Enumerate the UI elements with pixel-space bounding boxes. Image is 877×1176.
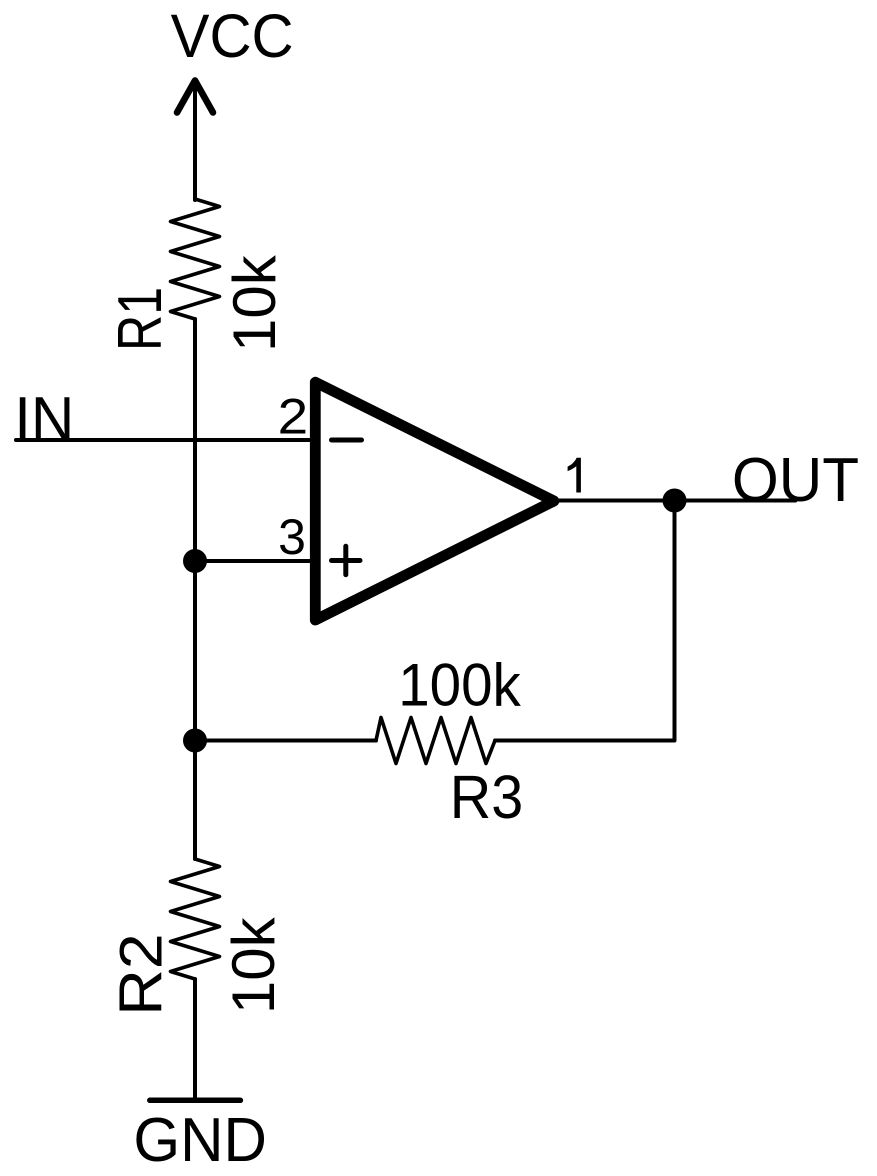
svg-text:GND: GND: [133, 1106, 267, 1175]
svg-text:3: 3: [278, 509, 306, 565]
svg-text:R3: R3: [450, 763, 524, 832]
svg-text:OUT: OUT: [732, 446, 859, 515]
op-amp non-inverting input plus sign: [332, 546, 361, 574]
svg-text:IN: IN: [14, 384, 74, 454]
wire R2 bottom to ground: [193, 979, 197, 1100]
pin number 1: [568, 458, 581, 493]
ground bar: [150, 1098, 241, 1104]
resistor R2: [171, 859, 220, 979]
wire feedback node to R3: [195, 739, 376, 743]
op-amp inverting input minus sign: [332, 438, 362, 443]
svg-text:10k: 10k: [221, 254, 288, 352]
resistor R1: [171, 199, 220, 319]
op-amp U1 triangle body: [315, 382, 554, 620]
svg-text:10k: 10k: [220, 916, 287, 1014]
wire output node down to feedback: [495, 501, 675, 741]
wire pin3 node to op-amp pin 3: [195, 559, 310, 563]
svg-text:VCC: VCC: [171, 2, 294, 71]
svg-text:2: 2: [278, 388, 309, 444]
resistor R3: [376, 718, 495, 764]
wire op-amp output to OUT: [553, 499, 795, 503]
wire IN to op-amp pin 2: [16, 438, 310, 442]
svg-text:R2: R2: [107, 933, 174, 1016]
power symbol VCC arrow: [177, 79, 213, 201]
svg-text:100k: 100k: [398, 652, 521, 719]
wire R1 bottom to R2 top: [193, 319, 197, 859]
junction dot output node: [663, 489, 687, 513]
junction dot feedback node: [183, 729, 207, 753]
junction dot pin3 node: [183, 549, 207, 573]
svg-text:R1: R1: [106, 287, 175, 351]
